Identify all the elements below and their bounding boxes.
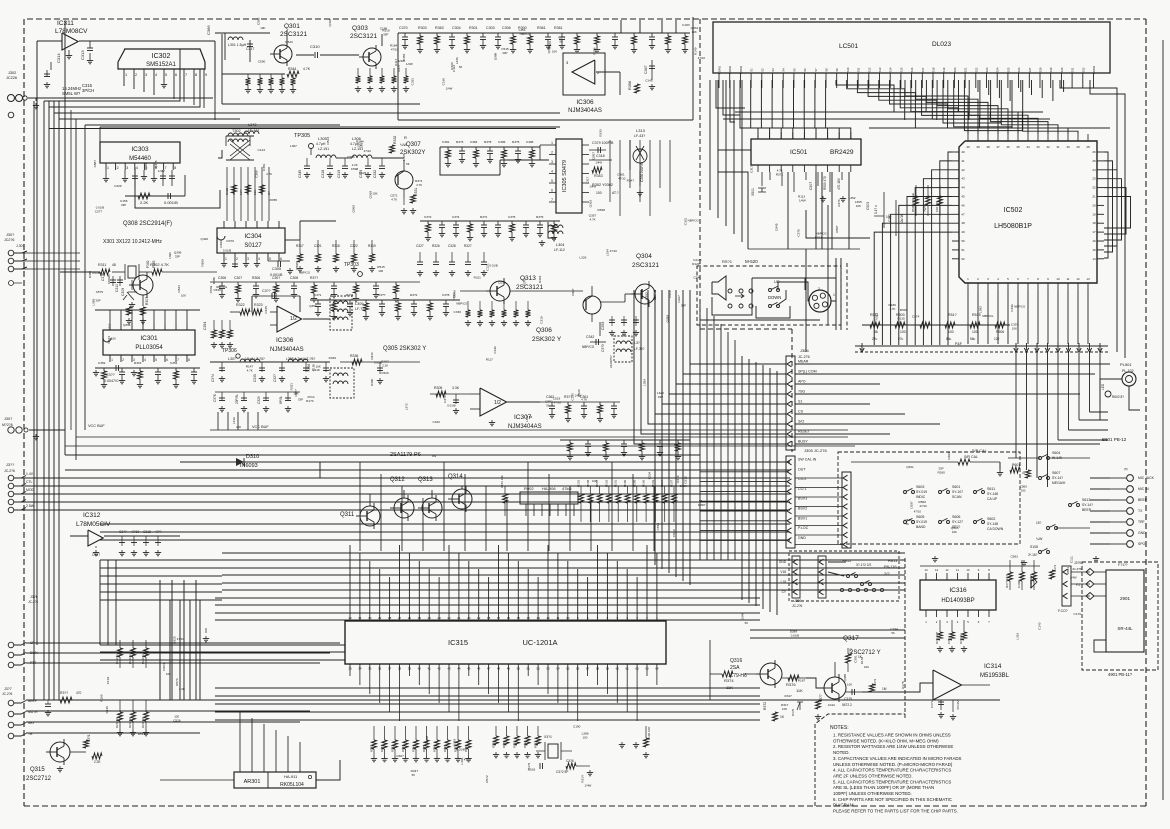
svg-text:R569: R569 (201, 259, 205, 267)
svg-text:26: 26 (408, 616, 412, 620)
svg-text:47/?: 47/? (155, 530, 162, 534)
svg-text:C120: C120 (105, 706, 109, 714)
svg-text:31: 31 (1056, 145, 1060, 149)
svg-text:3: 3 (145, 73, 147, 77)
S10B switch (1047, 527, 1050, 530)
connector strip J304 JC-276 (9 arrows) (786, 356, 795, 450)
svg-text:J304: J304 (800, 348, 809, 353)
svg-text:2SC2712 Y: 2SC2712 Y (850, 650, 881, 656)
svg-text:2.2K: 2.2K (179, 687, 185, 691)
svg-text:56u: 56u (970, 337, 976, 341)
svg-text:3: 3 (551, 160, 553, 164)
bus below IC315 (215, 687, 760, 689)
svg-text:5: 5 (269, 257, 271, 261)
svg-text:ARE SL (LESS THAN 100PF) OR 2F: ARE SL (LESS THAN 100PF) OR 2F (MORE THA… (833, 785, 934, 790)
svg-text:R191: R191 (513, 741, 517, 748)
svg-text:51: 51 (961, 248, 965, 252)
svg-text:33P: 33P (502, 51, 507, 55)
svg-text:C353: C353 (601, 322, 605, 330)
svg-text:V18: V18 (780, 570, 786, 574)
AR301 attenuator RK05L104 (234, 772, 316, 788)
svg-text:BEEP: BEEP (1138, 498, 1148, 502)
svg-text:23: 23 (437, 616, 441, 620)
svg-text:JC2?6: JC2?6 (4, 238, 14, 242)
svg-text:PLEASE REFER TO THE PARTS LIST: PLEASE REFER TO THE PARTS LIST FOR THE C… (833, 809, 958, 814)
svg-text:BSV2: BSV2 (798, 507, 807, 511)
extra analog fill row A (215, 220, 700, 222)
svg-text:C318: C318 (321, 170, 325, 178)
IC502 left fan staircases (948, 152, 952, 345)
S911 connector arrows (792, 556, 800, 598)
svg-text:1: 1 (225, 257, 227, 261)
caps between coils (306, 158, 308, 166)
R356 network right of IC306 (619, 72, 621, 95)
audio band rail 300 (310, 299, 460, 301)
svg-text:55: 55 (566, 667, 570, 671)
svg-text:47/10V: 47/10V (956, 700, 960, 710)
battery J901 dashed box (1082, 562, 1158, 670)
IC306 op-amp NJM3404AS first half (563, 53, 605, 95)
svg-text:JC-2?6: JC-2?6 (4, 469, 15, 473)
svg-text:JC-276: JC-276 (798, 355, 810, 359)
svg-text:56u: 56u (946, 337, 952, 341)
battery diamond contacts (1086, 569, 1094, 576)
svg-text:D310: D310 (246, 454, 259, 460)
svg-text:Q354: Q354 (309, 304, 317, 308)
svg-text:0.01/B: 0.01/B (96, 206, 104, 210)
svg-text:TX: TX (1138, 509, 1143, 513)
battery holder box 2901 SR-44L (1106, 570, 1144, 652)
S911 dashed box (789, 551, 899, 601)
svg-text:C3?1: C3?1 (314, 293, 322, 297)
svg-text:UP: UP (774, 279, 780, 284)
svg-text:0.0047/C: 0.0047/C (104, 379, 119, 383)
svg-text:104A: 104A (828, 703, 835, 707)
svg-text:15: 15 (517, 616, 521, 620)
svg-text:C3??: C3?? (378, 293, 386, 297)
svg-text:7: 7 (165, 166, 167, 170)
svg-text:C520: C520 (381, 371, 389, 375)
IC315 bottom pins (349, 664, 351, 671)
svg-text:2220PN?: 2220PN? (609, 355, 613, 368)
svg-text:43: 43 (447, 667, 451, 671)
svg-text:S17: S17 (921, 67, 925, 72)
svg-text:R336: R336 (350, 354, 358, 358)
svg-text:C598: C598 (295, 262, 299, 270)
svg-text:T306: T306 (307, 364, 311, 372)
svg-text:C319: C319 (337, 170, 341, 178)
svg-text:32: 32 (348, 616, 352, 620)
svg-text:2: 2 (117, 166, 119, 170)
svg-text:R110: R110 (668, 290, 672, 297)
svg-text:C342: C342 (586, 335, 594, 339)
svg-text:S8: S8 (825, 68, 829, 72)
svg-text:1.4V: 1.4V (26, 472, 34, 476)
svg-text:C317: C317 (750, 165, 754, 173)
IC304 ground pins (223, 261, 225, 264)
svg-text:C329: C329 (257, 396, 261, 404)
svg-text:12: 12 (945, 568, 949, 572)
svg-text:S18: S18 (932, 67, 936, 72)
svg-text:X501: X501 (751, 188, 755, 196)
svg-text:25: 25 (1092, 159, 1096, 163)
svg-text:S601: S601 (952, 485, 960, 489)
wires to right connectors (1090, 477, 1110, 479)
second IF strip wires (100, 126, 560, 128)
svg-text:D3?0: D3?0 (791, 708, 795, 716)
second arrow strip (right) (842, 472, 851, 548)
svg-text:33P: 33P (681, 304, 686, 308)
svg-text:R3?1: R3?1 (480, 215, 488, 219)
svg-text:CA UP: CA UP (987, 497, 998, 501)
svg-text:1K: 1K (780, 715, 785, 719)
svg-text:R347: R347 (627, 179, 635, 183)
C379 caps right of IC305 (589, 149, 606, 151)
svg-text:R111: R111 (108, 323, 112, 330)
C325/C326 second row (215, 391, 300, 393)
svg-text:R186: R186 (433, 745, 437, 752)
analog inner return wires (210, 429, 848, 431)
svg-text:C111: C111 (1070, 556, 1074, 563)
svg-text:47: 47 (1022, 471, 1026, 475)
svg-text:49: 49 (507, 667, 511, 671)
svg-text:R3?3: R3?3 (456, 140, 464, 144)
svg-text:C314: C314 (56, 53, 61, 63)
svg-text:C3??: C3?? (262, 289, 271, 293)
svg-text:3?-1?2 2/2: 3?-1?2 2/2 (856, 563, 871, 567)
svg-text:100PF) UNLESS OTHERWISE NOTED.: 100PF) UNLESS OTHERWISE NOTED. (833, 791, 912, 796)
svg-text:5. ALL CAPACITORS TEMPERATURE: 5. ALL CAPACITORS TEMPERATURE CHARACTERI… (833, 779, 951, 784)
svg-text:33P: 33P (383, 32, 388, 36)
svg-text:4: 4 (136, 166, 138, 170)
svg-text:JC-2?6: JC-2?6 (792, 604, 803, 608)
R372 1K resistor left (773, 712, 778, 721)
svg-text:1/4W: 1/4W (398, 59, 405, 63)
svg-text:C310: C310 (115, 284, 119, 292)
Q317 2SC2712 wiring (834, 662, 836, 677)
svg-text:R319: R319 (368, 244, 376, 248)
svg-text:2SA: 2SA (730, 665, 740, 671)
svg-text:(5): (5) (1124, 467, 1128, 471)
svg-text:R3?6 14?: R3?6 14? (935, 631, 939, 644)
svg-text:33: 33 (348, 667, 352, 671)
svg-text:1: 1 (107, 166, 109, 170)
svg-text:R546: R546 (900, 308, 908, 312)
svg-text:PL501: PL501 (1120, 362, 1132, 367)
IC316 top bus (920, 565, 1040, 567)
svg-text:R570: R570 (175, 678, 179, 686)
svg-text:R3?3: R3?3 (873, 678, 877, 686)
svg-text:D348: D348 (741, 613, 745, 621)
svg-text:R185: R185 (422, 745, 426, 752)
svg-text:34: 34 (358, 667, 362, 671)
svg-text:S3: S3 (771, 68, 775, 72)
LCD right pins long route (1060, 80, 1117, 352)
SW CAL resistor (958, 459, 970, 465)
svg-text:10K ?0?: 10K ?0? (935, 200, 939, 212)
svg-text:C331: C331 (411, 78, 415, 86)
svg-text:S27: S27 (1028, 67, 1032, 72)
Q305 gate network (340, 361, 420, 363)
svg-text:C574: C574 (912, 314, 920, 318)
svg-text:C399: C399 (1017, 580, 1021, 588)
svg-text:C3??: C3?? (106, 373, 115, 377)
svg-text:M?2?6: M?2?6 (2, 423, 13, 427)
R308 resistor on BEEP line (60, 697, 72, 703)
svg-text:NOTED.: NOTED. (833, 750, 850, 755)
svg-text:48: 48 (497, 667, 501, 671)
svg-text:LC501: LC501 (839, 43, 859, 50)
svg-text:R3?8: R3?8 (484, 140, 492, 144)
svg-text:L78M08CV: L78M08CV (55, 28, 88, 35)
svg-text:L316: L316 (232, 417, 236, 424)
T304 tuned transformer (330, 296, 352, 330)
svg-text:C534: C534 (648, 472, 652, 480)
svg-text:47/10: 47/10 (914, 510, 922, 514)
svg-text:C310: C310 (310, 44, 320, 49)
svg-text:C3?4: C3?4 (211, 374, 215, 382)
svg-text:C370: C370 (399, 26, 408, 30)
svg-text:C388: C388 (526, 140, 534, 144)
PB-116 board dashed outline (904, 558, 906, 718)
svg-text:NBP/CG: NBP/CG (456, 301, 468, 305)
LCD right pins drop (977, 80, 979, 92)
svg-text:C313: C313 (80, 50, 85, 60)
svg-text:SR-44L: SR-44L (1117, 626, 1133, 631)
svg-text:44: 44 (457, 667, 461, 671)
svg-text:GND: GND (798, 536, 806, 540)
PL501 lamp (1122, 372, 1136, 386)
svg-text:Q312: Q312 (390, 477, 405, 483)
svg-text:8: 8 (188, 358, 190, 362)
svg-text:S1: S1 (750, 68, 754, 72)
S108 switch lower (1039, 551, 1042, 554)
svg-text:Q388: Q388 (843, 674, 847, 682)
svg-text:2SC3121: 2SC3121 (350, 33, 377, 40)
svg-text:38: 38 (986, 145, 990, 149)
switch cluster dashed box (838, 452, 1020, 544)
svg-text:Q325: Q325 (154, 160, 158, 168)
svg-text:8: 8 (195, 73, 197, 77)
svg-text:19: 19 (477, 616, 481, 620)
svg-text:470: 470 (76, 691, 82, 695)
svg-text:R371: R371 (776, 173, 784, 177)
J307 wires (26, 699, 1000, 701)
svg-text:0.01/B: 0.01/B (374, 361, 382, 365)
svg-text:2SC2712: 2SC2712 (26, 776, 52, 782)
svg-text:C183: C183 (682, 23, 690, 27)
svg-text:41: 41 (428, 667, 432, 671)
R151 resistor left of R902 (504, 486, 506, 494)
svg-text:R377: R377 (397, 64, 401, 72)
svg-text:Q303: Q303 (352, 25, 368, 32)
T305 transformer dashed (330, 368, 354, 398)
svg-text:S/R CAL: S/R CAL (972, 449, 987, 453)
svg-text:Q320: Q320 (201, 237, 209, 241)
svg-text:56: 56 (891, 631, 895, 635)
LCD pin fanout wires (716, 80, 745, 108)
svg-text:1000/B: 1000/B (107, 274, 111, 284)
svg-text:47/10: 47/10 (920, 504, 928, 508)
svg-text:C381: C381 (442, 140, 450, 144)
Q316 transistor (760, 663, 782, 685)
trimmer cap under X301 (131, 280, 133, 290)
svg-text:2.5W: 2.5W (26, 504, 35, 508)
svg-text:10K: 10K (592, 479, 597, 483)
svg-text:UC-1201A: UC-1201A (522, 638, 557, 647)
svg-text:R513: R513 (326, 137, 330, 145)
svg-text:6: 6 (175, 73, 177, 77)
svg-text:NOTES:: NOTES: (830, 725, 849, 731)
svg-text:R523: R523 (285, 40, 293, 44)
rotary encoder (809, 290, 831, 312)
svg-text:Q369: Q369 (351, 205, 355, 213)
svg-text:56: 56 (898, 321, 902, 325)
svg-text:1/4W: 1/4W (1070, 575, 1077, 579)
svg-text:S19: S19 (942, 67, 946, 72)
vertical risers IC315 to mid bus (359, 462, 361, 551)
svg-text:20: 20 (1092, 203, 1096, 207)
svg-text:S/R CAL: S/R CAL (964, 455, 978, 459)
wires feeding IC305 (440, 147, 500, 175)
resistor cluster right of R902 (580, 486, 582, 494)
svg-text:J30?: J30? (6, 233, 14, 237)
LCD pin labels (718, 73, 720, 80)
svg-text:4.7K: 4.7K (391, 197, 397, 201)
mid band caps under Q313 (467, 301, 469, 310)
Q307 source parts (403, 198, 405, 205)
svg-text:S1: S1 (798, 400, 802, 404)
svg-text:64: 64 (655, 667, 659, 671)
svg-text:33P: 33P (298, 398, 303, 402)
svg-text:S25: S25 (1006, 67, 1010, 72)
svg-text:L367: L367 (290, 144, 297, 148)
svg-text:COM2: COM2 (728, 66, 732, 75)
svg-text:C143: C143 (258, 148, 266, 152)
svg-text:3*-16?: 3*-16? (1028, 553, 1038, 557)
IC502 bottom pin drops (967, 290, 969, 344)
svg-text:Q308 2SC2914(F): Q308 2SC2914(F) (123, 221, 172, 227)
svg-text:R169: R169 (99, 694, 103, 702)
svg-text:36: 36 (1006, 145, 1010, 149)
svg-text:20: 20 (467, 616, 471, 620)
svg-text:RL5616: RL5616 (128, 654, 132, 664)
svg-text:38: 38 (398, 667, 402, 671)
outer board border (dashed) (27, 18, 1146, 20)
svg-text:100: 100 (166, 672, 171, 676)
svg-text:F.?1??: F.?1?? (1118, 563, 1128, 567)
svg-text:M51953BL: M51953BL (980, 673, 1010, 679)
svg-text:11: 11 (956, 568, 959, 572)
S613 BEEP switch (1069, 504, 1072, 507)
svg-text:J3?8: J3?8 (30, 595, 38, 599)
IC304 S0127 (217, 228, 285, 253)
IC501 BR2429 (751, 139, 861, 165)
svg-text:21: 21 (457, 616, 461, 620)
svg-text:R344: R344 (288, 67, 296, 71)
svg-text:Q307: Q307 (406, 142, 421, 148)
svg-text:NBP/CG: NBP/CG (299, 271, 311, 275)
svg-text:IC315: IC315 (448, 638, 468, 647)
crystal X301 symbol (128, 266, 136, 278)
svg-text:C329: C329 (114, 184, 122, 188)
svg-text:R363: R363 (435, 26, 444, 30)
svg-text:L326: L326 (579, 255, 586, 259)
svg-text:L304: L304 (556, 243, 564, 247)
IC302 SM5152A1 (118, 49, 205, 69)
IC315 bottom pin drops (349, 671, 351, 676)
svg-text:47/10: 47/10 (618, 177, 626, 181)
svg-text:R182: R182 (391, 745, 395, 752)
svg-text:NJM3404AS: NJM3404AS (568, 108, 602, 114)
svg-text:10K: 10K (372, 192, 377, 196)
svg-text:R326: R326 (432, 244, 440, 248)
svg-text:HA-911: HA-911 (284, 774, 298, 779)
svg-text:M54460: M54460 (129, 156, 151, 162)
keypad contact circles (728, 289, 732, 293)
svg-text:C503: C503 (866, 202, 870, 210)
svg-text:14: 14 (924, 568, 928, 572)
IC502 bottom pins (967, 283, 969, 290)
IC305 left caps (540, 144, 549, 146)
svg-text:R3?9: R3?9 (536, 215, 544, 219)
svg-text:41: 41 (961, 159, 965, 163)
svg-text:P.LOC: P.LOC (798, 526, 809, 530)
svg-text:47/10: 47/10 (610, 249, 618, 253)
svg-text:IC501: IC501 (790, 149, 808, 156)
svg-text:R3??: R3?? (310, 276, 318, 280)
IC315 top pins (349, 614, 351, 621)
svg-text:NBP/CG: NBP/CG (1014, 305, 1026, 309)
svg-text:27u: 27u (898, 337, 904, 341)
svg-text:L317: L317 (585, 176, 589, 183)
svg-text:C583: C583 (1010, 555, 1018, 559)
L302/C cluster left of Q308 (112, 276, 114, 286)
svg-text:S15: S15 (899, 67, 903, 72)
svg-text:D346: D346 (676, 475, 680, 483)
svg-text:11: 11 (1066, 277, 1069, 281)
C353 cap row (599, 322, 601, 336)
IC303 ground cluster (105, 170, 107, 176)
svg-text:S16: S16 (910, 67, 914, 72)
IC502 top pins (967, 134, 969, 141)
svg-text:R189: R189 (502, 741, 506, 748)
LCD display LC501 DL023 (713, 22, 1110, 73)
svg-text:SM5152A1: SM5152A1 (146, 62, 176, 68)
analog section frame wires (64, 21, 66, 455)
svg-text:2SC3121: 2SC3121 (280, 31, 307, 38)
svg-text:Q313: Q313 (418, 477, 433, 483)
svg-text:1/2: 1/2 (494, 400, 501, 406)
wires from 5-pin connector (21, 477, 320, 479)
long vertical bundle below arrow row (right) (1015, 352, 1017, 458)
svg-text:33P: 33P (95, 299, 100, 303)
connector strip J305 JC-276 (9 arrows) (786, 456, 795, 548)
svg-text:0.01/B: 0.01/B (456, 747, 464, 751)
svg-text:J.301: J.301 (16, 244, 25, 248)
svg-text:26: 26 (1092, 150, 1096, 154)
svg-text:R317: R317 (296, 244, 304, 248)
svg-text:C507: C507 (809, 182, 813, 190)
svg-text:8: 8 (174, 166, 176, 170)
svg-text:F393: F393 (152, 260, 156, 268)
svg-text:C317: C317 (92, 553, 100, 557)
svg-text:C145: C145 (645, 78, 653, 82)
svg-text:P8-116: P8-116 (884, 564, 897, 569)
svg-text:C?: C? (267, 191, 271, 195)
svg-text:R373: R373 (523, 278, 527, 286)
svg-text:22: 22 (1092, 186, 1096, 190)
